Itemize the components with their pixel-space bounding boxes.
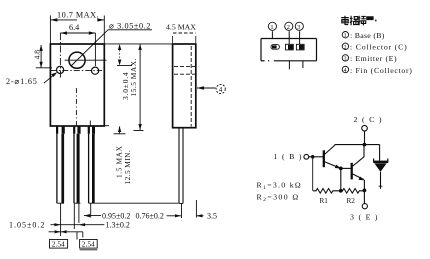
centerline horizontal through big hole	[65, 59, 107, 61]
svg-text:4.5 MAX: 4.5 MAX	[166, 23, 196, 32]
transistor Q1 base bar	[323, 150, 325, 167]
lead 3	[88, 127, 95, 204]
pin leads below box	[289, 61, 303, 70]
dim 3.0 pm 0.4	[104, 44, 173, 66]
pin list item 3	[342, 55, 348, 61]
lead tips projection line	[95, 202, 179, 204]
pad 2	[286, 44, 294, 50]
bottom extension lines	[61, 200, 197, 240]
small hole left	[57, 66, 64, 73]
pin stubs above box	[272, 31, 299, 44]
circled pin number 3	[295, 22, 303, 30]
svg-text:R2: R2	[347, 197, 356, 205]
collector top rail wire	[335, 144, 380, 146]
resistor R2	[341, 189, 365, 194]
svg-text:1.05±0.2: 1.05±0.2	[9, 221, 45, 230]
svg-text:R2=300 Ω: R2=300 Ω	[257, 192, 300, 203]
transistor Q1 emitter with arrow	[324, 162, 339, 168]
kanji DEN	[341, 16, 349, 25]
kanji SETSU	[358, 16, 366, 26]
dim 1.3 pm 0.2	[79, 223, 85, 226]
terminal B circle	[304, 154, 309, 159]
package front view body	[50, 44, 104, 126]
wire Q2e down to E	[363, 180, 365, 204]
node R2-E junction	[363, 189, 367, 193]
svg-text:10.7 MAX.: 10.7 MAX.	[57, 10, 99, 19]
circled pin number 1	[268, 22, 276, 30]
diode wire top	[379, 145, 381, 161]
svg-text:1 ( B ): 1 ( B )	[274, 152, 303, 161]
transistor Q2 collector	[352, 157, 364, 167]
kanji ZOKU remnants	[367, 17, 373, 20]
boxed 2.54 right	[80, 240, 98, 249]
svg-text:: Emitter (E): : Emitter (E)	[350, 54, 397, 63]
svg-text:3 ( E ): 3 ( E )	[350, 213, 379, 222]
boxed 2.54 left	[50, 240, 68, 249]
lead 2	[73, 127, 81, 204]
wire C vertical	[364, 131, 366, 145]
node C junction	[363, 143, 367, 147]
node Q1e junction	[339, 167, 343, 171]
svg-text:3: 3	[344, 56, 347, 62]
dim 6.4	[60, 32, 95, 34]
svg-text:3: 3	[297, 24, 300, 31]
resistor R1	[313, 189, 341, 194]
dim 10.7 MAX	[50, 16, 104, 44]
svg-text:2.54: 2.54	[52, 240, 65, 249]
kanji KYOKU	[350, 16, 358, 25]
dim 3.5	[196, 214, 202, 217]
leader dia 3.05	[72, 30, 109, 66]
svg-text:4: 4	[219, 86, 223, 94]
svg-text:1: 1	[344, 33, 347, 39]
dim 2.54 chain	[49, 231, 83, 233]
svg-text:0.95±0.2: 0.95±0.2	[102, 211, 130, 220]
centerline vertical hole right	[94, 33, 96, 66]
pad 1	[271, 45, 279, 50]
side view hidden hole lines	[174, 65, 195, 67]
mounting hole phi3.05	[69, 52, 85, 68]
circled pin number 2	[285, 22, 293, 30]
svg-text:1.3±0.2: 1.3±0.2	[106, 221, 130, 230]
dim 0.95 pm 0.2	[84, 215, 101, 217]
svg-text:4.8: 4.8	[33, 50, 42, 60]
svg-text:: Fin (Collector): : Fin (Collector)	[350, 66, 413, 75]
terminal E circle	[362, 204, 367, 209]
diode wire bottom	[380, 172, 382, 189]
node B junction	[311, 155, 315, 159]
svg-text:15.5 MAX.: 15.5 MAX.	[129, 58, 138, 96]
wire Q1e to Q2 base	[341, 167, 351, 169]
transistor Q1 collector	[324, 145, 335, 155]
side view hidden line vertical	[190, 46, 192, 127]
centerline vertical hole left	[59, 33, 61, 79]
pin layout box	[261, 39, 317, 61]
svg-text:⌀ 3.05±0.2: ⌀ 3.05±0.2	[109, 22, 151, 31]
terminal C circle	[362, 125, 368, 131]
svg-text:12.5 MIN.: 12.5 MIN.	[123, 150, 132, 185]
pin list item 2	[342, 43, 348, 49]
wire B horizontal	[309, 156, 324, 158]
header kanji 電極接続	[341, 16, 376, 26]
side view body	[173, 44, 196, 128]
svg-text:2.54: 2.54	[82, 240, 95, 249]
svg-text:3.5: 3.5	[207, 212, 217, 221]
small hole right	[92, 67, 99, 74]
svg-text:R1: R1	[320, 197, 329, 205]
node R1-R2 junction	[339, 189, 343, 193]
dim 4.8	[40, 45, 42, 68]
svg-text:: Collector (C): : Collector (C)	[350, 43, 407, 52]
svg-text:2-⌀1.65: 2-⌀1.65	[6, 77, 38, 86]
pin list item 4	[342, 66, 348, 72]
svg-text:: Base (B): : Base (B)	[350, 31, 385, 40]
svg-text:2: 2	[287, 24, 290, 31]
pin list item 1	[342, 32, 348, 38]
pad 3	[296, 44, 304, 50]
centerline horizontal through small holes	[51, 69, 102, 71]
side view lead	[179, 128, 183, 204]
extension stub inner bottom	[89, 121, 91, 127]
dim 15.5 MAX	[139, 44, 141, 130]
svg-text:6.4: 6.4	[69, 23, 79, 32]
svg-text:0.76±0.2: 0.76±0.2	[136, 211, 164, 220]
diode D1	[373, 159, 388, 172]
transistor Q2 base bar	[351, 163, 353, 180]
dim 4.5 MAX	[173, 32, 196, 34]
package vertical centerline	[75, 88, 77, 126]
svg-text:2 ( C ): 2 ( C )	[354, 115, 383, 124]
svg-text:4: 4	[344, 68, 347, 74]
wire B branch down to R1	[312, 157, 314, 191]
transistor Q2 emitter with arrow	[352, 174, 363, 180]
lead 1	[56, 127, 65, 204]
svg-text:2: 2	[344, 45, 347, 51]
fin pointer (4)	[197, 87, 216, 89]
wire Q1e down to R1/R2 node	[340, 168, 342, 190]
dim 1.5 MAX / 12.5 MIN arrows	[100, 125, 109, 127]
svg-text:1: 1	[270, 24, 273, 31]
